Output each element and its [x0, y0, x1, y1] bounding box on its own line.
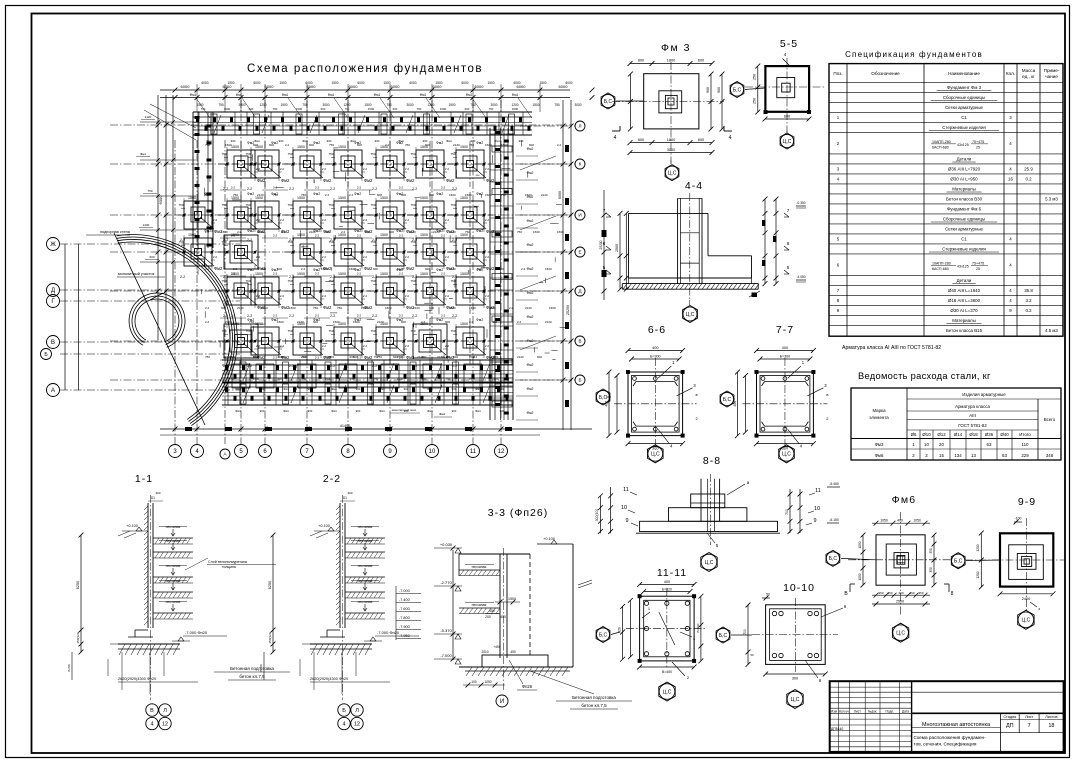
svg-text:600: 600 [784, 115, 790, 119]
svg-text:2-2: 2-2 [223, 364, 228, 368]
svg-text:Ц,С: Ц,С [791, 697, 800, 703]
bottom axis circles [169, 445, 182, 458]
svg-text:бетон кл.7,5: бетон кл.7,5 [581, 703, 607, 708]
svg-text:Фм2: Фм2 [396, 192, 403, 196]
svg-text:10: 10 [814, 506, 820, 512]
svg-text:ДП5140: ДП5140 [831, 727, 843, 731]
svg-text:400: 400 [652, 346, 658, 350]
svg-text:Ø36: Ø36 [985, 432, 994, 437]
svg-text:1500: 1500 [485, 143, 492, 147]
svg-text:В=400: В=400 [662, 670, 672, 674]
svg-text:450: 450 [510, 650, 516, 654]
svg-text:25200: 25200 [599, 240, 603, 249]
diagonal cut line [114, 233, 205, 425]
svg-text:2500: 2500 [615, 244, 619, 252]
svg-text:Фм2: Фм2 [313, 318, 320, 322]
svg-text:-7.900: -7.900 [399, 625, 410, 629]
svg-text:1500: 1500 [338, 272, 346, 276]
spec table rows [837, 85, 1059, 333]
svg-text:2-2: 2-2 [289, 187, 294, 191]
detail 5-5 [745, 86, 825, 88]
svg-text:25.9: 25.9 [1024, 167, 1033, 172]
svg-text:1500: 1500 [539, 81, 546, 85]
svg-text:2-2: 2-2 [357, 272, 362, 276]
marker circle CS of Fm3 [665, 166, 678, 179]
svg-text:2-2: 2-2 [289, 238, 294, 242]
svg-text:Марка: Марка [872, 408, 886, 413]
svg-text:600: 600 [537, 355, 542, 359]
svg-text:100: 100 [471, 680, 477, 684]
svg-text:2.2: 2.2 [521, 267, 526, 271]
svg-text:1500: 1500 [485, 193, 492, 197]
svg-text:750: 750 [287, 279, 292, 283]
svg-text:7: 7 [787, 208, 790, 213]
section 7-7 dims [757, 350, 814, 352]
svg-text:1500: 1500 [549, 306, 556, 310]
svg-text:2-2: 2-2 [412, 238, 417, 242]
svg-text:Фм2: Фм2 [396, 141, 403, 145]
svg-text:песчаная: песчаная [166, 600, 181, 604]
svg-text:2-2: 2-2 [330, 238, 335, 242]
svg-text:Ц,С: Ц,С [783, 139, 792, 145]
marker circle BS of 6-6 [596, 390, 609, 403]
svg-text:Сетки арматурные: Сетки арматурные [945, 105, 984, 110]
svg-text:2-2: 2-2 [315, 356, 320, 360]
svg-text:2-2: 2-2 [231, 272, 236, 276]
svg-text:2-2: 2-2 [273, 234, 278, 238]
svg-text:2-2: 2-2 [399, 356, 404, 360]
svg-text:750: 750 [245, 329, 250, 333]
svg-text:песчаная: песчаная [358, 525, 373, 529]
svg-text:2620(2920(4300 Фп20: 2620(2920(4300 Фп20 [310, 677, 348, 681]
svg-text:6250: 6250 [76, 581, 80, 589]
svg-text:1500: 1500 [380, 272, 388, 276]
footings embedded in lower strip [232, 364, 250, 388]
svg-text:Материалы: Материалы [952, 318, 976, 323]
svg-text:2-2: 2-2 [247, 364, 252, 368]
svg-text:350: 350 [929, 548, 933, 554]
section 1-1 axis circles [146, 704, 158, 716]
svg-text:2120: 2120 [237, 306, 244, 310]
svg-text:1200: 1200 [511, 103, 518, 107]
svg-text:600: 600 [425, 143, 430, 147]
svg-text:В: В [150, 708, 154, 714]
section 2-2 dims [272, 535, 274, 652]
svg-text:1500: 1500 [460, 322, 468, 326]
left edge dim stubs [140, 121, 196, 123]
svg-text:1050: 1050 [484, 680, 491, 684]
svg-text:1200: 1200 [143, 223, 150, 227]
svg-text:1500: 1500 [449, 193, 456, 197]
svg-text:Б,С: Б,С [733, 87, 742, 93]
svg-text:3-3 (Фп26): 3-3 (Фп26) [488, 507, 548, 519]
svg-text:6000: 6000 [265, 84, 275, 89]
marker circle BS of Fm3 [601, 94, 614, 107]
svg-text:35.8: 35.8 [1024, 288, 1033, 293]
svg-text:Б=300: Б=300 [650, 355, 660, 359]
svg-text:песчаная: песчаная [358, 539, 373, 543]
svg-text:Фундамент Фм 3: Фундамент Фм 3 [947, 85, 982, 90]
svg-text:1500: 1500 [255, 272, 263, 276]
svg-text:1500: 1500 [364, 103, 371, 107]
svg-text:2.2: 2.2 [237, 230, 242, 234]
svg-text:6000: 6000 [253, 81, 260, 85]
svg-text:2.2: 2.2 [233, 267, 238, 271]
svg-text:600: 600 [373, 267, 378, 271]
svg-text:600: 600 [425, 267, 430, 271]
svg-text:300(300: 300(300 [595, 509, 599, 522]
svg-text:Фм2: Фм2 [271, 318, 278, 322]
svg-text:Фм2: Фм2 [476, 268, 483, 272]
svg-text:Фм2: Фм2 [527, 267, 534, 271]
svg-text:Приме-: Приме- [1044, 68, 1060, 73]
svg-text:Стадия: Стадия [1003, 715, 1016, 719]
svg-text:346: 346 [1046, 453, 1054, 458]
svg-text:750: 750 [410, 152, 415, 156]
svg-text:1500: 1500 [489, 306, 496, 310]
svg-text:Фм2: Фм2 [247, 229, 254, 233]
svg-text:0.2: 0.2 [1025, 177, 1032, 182]
svg-text:6: 6 [787, 241, 790, 246]
svg-text:13: 13 [971, 453, 976, 458]
svg-text:Фм1: Фм1 [331, 387, 337, 391]
svg-text:600: 600 [422, 377, 427, 381]
svg-text:Спецификация фундаментов: Спецификация фундаментов [845, 50, 983, 59]
section 7-7 body [743, 403, 828, 405]
svg-text:Фм2: Фм2 [247, 141, 254, 145]
svg-text:900: 900 [356, 409, 361, 413]
svg-text:2-2: 2-2 [273, 356, 278, 360]
svg-text:Кол.уч: Кол.уч [839, 709, 849, 713]
svg-text:Б=300: Б=300 [780, 355, 790, 359]
svg-text:1500: 1500 [289, 306, 296, 310]
svg-text:Фм2: Фм2 [354, 318, 361, 322]
svg-text:400: 400 [897, 519, 903, 523]
svg-text:Фм2: Фм2 [476, 141, 483, 145]
svg-text:Фм2: Фм2 [439, 412, 445, 416]
svg-text:Б,С: Б,С [719, 633, 728, 639]
svg-text:Фм2: Фм2 [476, 318, 483, 322]
svg-text:350: 350 [918, 591, 923, 595]
svg-text:900: 900 [279, 139, 284, 143]
svg-text:Фм2: Фм2 [527, 291, 534, 295]
svg-text:2.2: 2.2 [485, 344, 490, 348]
svg-text:Фм1: Фм1 [235, 387, 241, 391]
svg-text:2.2: 2.2 [445, 218, 450, 222]
svg-text:2-2: 2-2 [399, 186, 404, 190]
svg-text:2120: 2120 [525, 306, 532, 310]
axis circle Ж left [47, 238, 60, 251]
svg-text:350: 350 [909, 591, 914, 595]
svg-text:в: в [826, 392, 828, 397]
svg-text:+450: +450 [493, 645, 500, 649]
svg-text:Ø14: Ø14 [954, 432, 963, 437]
svg-text:Ц,С: Ц,С [896, 631, 905, 637]
svg-text:700: 700 [743, 629, 747, 635]
svg-text:2-2: 2-2 [273, 314, 278, 318]
svg-text:Б1: Б1 [151, 496, 155, 500]
svg-text:2-2: 2-2 [412, 364, 417, 368]
footing plan x265 y291 [242, 290, 288, 292]
section 2-2 axis circles [338, 704, 350, 716]
svg-text:2-2: 2-2 [315, 314, 320, 318]
svg-text:Ø12: Ø12 [937, 432, 946, 437]
svg-text:Фм2: Фм2 [476, 192, 483, 196]
svg-text:600: 600 [377, 193, 382, 197]
svg-text:1050: 1050 [880, 519, 888, 523]
steel table grid [851, 388, 1061, 460]
top extension lines and small texts [196, 84, 198, 112]
svg-text:2-2: 2-2 [180, 238, 185, 242]
svg-text:Лист: Лист [1025, 715, 1034, 719]
svg-text:750: 750 [337, 306, 342, 310]
svg-text:Ц,С: Ц,С [686, 312, 695, 318]
svg-text:134: 134 [954, 453, 962, 458]
svg-text:750: 750 [450, 203, 455, 207]
marker circle BS of 10-10 [716, 628, 729, 641]
svg-text:1500: 1500 [469, 377, 476, 381]
svg-text:900: 900 [717, 87, 721, 93]
svg-text:1500: 1500 [361, 306, 368, 310]
marker circle CS of 11-11 [659, 684, 675, 700]
axis circle В left [47, 336, 60, 349]
svg-text:2120: 2120 [541, 193, 548, 197]
svg-text:2-2: 2-2 [180, 275, 185, 279]
svg-text:толщина: толщина [222, 565, 236, 569]
svg-text:2-2: 2-2 [452, 187, 457, 191]
svg-text:5.3 м3: 5.3 м3 [1045, 197, 1058, 202]
svg-text:4: 4 [342, 721, 345, 727]
footing plan x241 y291 [218, 290, 264, 292]
section 6-6 body [614, 403, 697, 405]
svg-text:750: 750 [417, 107, 422, 111]
svg-text:Кол.: Кол. [1006, 71, 1015, 76]
svg-text:песчаная: песчаная [166, 579, 181, 583]
footing plan x430 y252 [407, 251, 453, 253]
svg-text:2120: 2120 [449, 267, 456, 271]
svg-text:2-2: 2-2 [231, 186, 236, 190]
svg-text:750: 750 [205, 355, 210, 359]
svg-text:600: 600 [253, 355, 258, 359]
footing plan x470 y341 [447, 340, 493, 342]
svg-text:4: 4 [729, 135, 732, 141]
svg-text:ГОСТ 5781-82: ГОСТ 5781-82 [958, 423, 987, 428]
svg-text:песчаная: песчаная [358, 579, 373, 583]
svg-text:Фундамент Фм 6: Фундамент Фм 6 [947, 207, 982, 212]
svg-text:6000: 6000 [475, 84, 485, 89]
svg-text:1500: 1500 [227, 81, 234, 85]
svg-text:3000: 3000 [238, 103, 245, 107]
detail 9-9 [965, 559, 1065, 561]
svg-text:12: 12 [162, 721, 168, 727]
svg-text:1800: 1800 [667, 138, 675, 142]
svg-text:-6.150: -6.150 [829, 518, 839, 522]
svg-text:75+475: 75+475 [972, 140, 984, 144]
svg-text:1500: 1500 [440, 107, 447, 111]
svg-text:Фм1: Фм1 [331, 409, 337, 413]
svg-text:Схема расположения фундаментов: Схема расположения фундаментов [247, 63, 483, 75]
svg-text:2.2: 2.2 [280, 167, 285, 171]
svg-text:2-2: 2-2 [441, 234, 446, 238]
footing plan x430 y164 [407, 163, 453, 165]
svg-text:750: 750 [302, 103, 308, 107]
svg-text:750: 750 [302, 377, 307, 381]
svg-text:2.2: 2.2 [363, 255, 368, 259]
svg-text:1500: 1500 [261, 306, 268, 310]
footing plan x348 y341 [325, 340, 371, 342]
svg-text:6250: 6250 [268, 581, 272, 589]
svg-text:900: 900 [500, 387, 505, 391]
svg-text:Ц,С: Ц,С [668, 170, 677, 176]
svg-text:Фм2: Фм2 [257, 178, 266, 183]
svg-text:750: 750 [345, 107, 350, 111]
svg-text:2620(2920(4300 Фп20: 2620(2920(4300 Фп20 [118, 677, 156, 681]
svg-text:110: 110 [1022, 442, 1030, 447]
svg-text:2120: 2120 [449, 230, 456, 234]
svg-text:250: 250 [753, 98, 757, 104]
svg-text:600: 600 [329, 355, 334, 359]
svg-text:6000: 6000 [357, 81, 364, 85]
svg-text:1500: 1500 [435, 81, 442, 85]
svg-text:Л: Л [163, 708, 167, 714]
svg-text:750: 750 [370, 152, 375, 156]
footing plan x241 y341 [218, 340, 264, 342]
marker circle CS of 5-5 [780, 134, 793, 147]
axis circle Б2 left [41, 349, 52, 360]
svg-text:в: в [696, 392, 698, 397]
svg-text:2120: 2120 [413, 306, 420, 310]
svg-text:Фм1: Фм1 [190, 93, 197, 97]
footing plan x348 y215 [325, 214, 371, 216]
svg-text:бетон кл.7,5: бетон кл.7,5 [239, 674, 265, 679]
marker circle BS of 11-11 [596, 628, 609, 641]
svg-text:2.2: 2.2 [281, 230, 286, 234]
svg-text:2-2: 2-2 [357, 234, 362, 238]
svg-text:750: 750 [465, 230, 470, 234]
svg-text:600: 600 [325, 230, 330, 234]
svg-text:2.2: 2.2 [280, 344, 285, 348]
svg-text:Обозначение: Обозначение [871, 71, 900, 76]
svg-text:-7.950: -7.950 [399, 634, 410, 638]
footing plan x307 y252 [284, 251, 330, 253]
svg-text:Стержневые изделия: Стержневые изделия [942, 247, 986, 252]
svg-text:2-2: 2-2 [441, 314, 446, 318]
svg-text:1500: 1500 [420, 196, 428, 200]
svg-text:Б,С: Б,С [599, 395, 608, 401]
svg-text:Фм2: Фм2 [271, 268, 278, 272]
svg-text:Всего: Всего [1044, 417, 1056, 422]
svg-text:Фм 3: Фм 3 [661, 42, 691, 54]
left wall footing strip segment [192, 112, 194, 248]
svg-text:1500: 1500 [321, 267, 328, 271]
svg-text:Ц,С: Ц,С [782, 452, 791, 458]
svg-text:Фм2: Фм2 [436, 318, 443, 322]
footing plan x241 y164 [218, 163, 264, 165]
svg-text:А: А [51, 388, 55, 394]
svg-text:2.2: 2.2 [301, 267, 306, 271]
footing plan x307 y215 [284, 214, 330, 216]
title block grid [830, 686, 912, 688]
section 11-11 dims [640, 584, 695, 586]
svg-text:2.2: 2.2 [322, 255, 327, 259]
svg-text:Ц,С: Ц,С [651, 452, 660, 458]
svg-text:Лист: Лист [854, 709, 861, 713]
svg-text:С1: С1 [961, 115, 967, 120]
svg-text:750: 750 [221, 152, 226, 156]
svg-text:1050: 1050 [858, 573, 862, 580]
svg-text:0.2: 0.2 [1025, 308, 1032, 313]
svg-text:63: 63 [1002, 453, 1007, 458]
svg-text:Фм2: Фм2 [406, 266, 415, 271]
svg-text:Слой пенополиуретана: Слой пенополиуретана [208, 560, 247, 564]
svg-text:1500: 1500 [188, 196, 196, 200]
svg-text:1500: 1500 [460, 145, 468, 149]
svg-text:1500: 1500 [188, 233, 196, 237]
svg-text:2-2: 2-2 [315, 234, 320, 238]
svg-text:1500: 1500 [460, 272, 468, 276]
svg-text:63: 63 [987, 442, 992, 447]
svg-text:Б1: Б1 [343, 496, 347, 500]
svg-text:И: И [578, 213, 581, 218]
svg-text:2-2: 2-2 [441, 272, 446, 276]
svg-text:-5.370: -5.370 [440, 628, 452, 633]
svg-text:2.2: 2.2 [473, 355, 478, 359]
svg-text:6000: 6000 [461, 81, 468, 85]
svg-text:900: 900 [519, 139, 524, 143]
svg-text:Фм2: Фм2 [313, 192, 320, 196]
svg-text:Б=50: Б=50 [67, 664, 71, 671]
svg-text:1500: 1500 [368, 107, 375, 111]
svg-text:Сборочные единицы: Сборочные единицы [943, 95, 985, 100]
svg-text:Фм1: Фм1 [235, 409, 241, 413]
svg-text:6000: 6000 [513, 81, 520, 85]
svg-text:1200: 1200 [976, 544, 980, 551]
svg-text:Наименование: Наименование [948, 71, 980, 76]
svg-text:2-2: 2-2 [289, 364, 294, 368]
footing plan x430 y215 [407, 214, 453, 216]
svg-text:Листов: Листов [1045, 715, 1057, 719]
svg-text:750: 750 [370, 279, 375, 283]
svg-text:600: 600 [698, 59, 704, 63]
svg-text:2120: 2120 [145, 115, 152, 119]
svg-text:Фм1: Фм1 [427, 409, 433, 413]
svg-text:600: 600 [350, 377, 355, 381]
svg-text:2.2: 2.2 [445, 255, 450, 259]
steel table texts [869, 392, 1056, 458]
top dimension lines [160, 89, 570, 91]
svg-text:1500: 1500 [231, 322, 239, 326]
svg-text:Фм2: Фм2 [476, 229, 483, 233]
footing plan x241 y215 [218, 214, 264, 216]
svg-text:Фм2: Фм2 [406, 178, 415, 183]
svg-text:-7.000: -7.000 [440, 653, 452, 658]
svg-text:2-2: 2-2 [452, 275, 457, 279]
svg-text:2120: 2120 [545, 320, 552, 324]
svg-text:Ø30 АI L=950: Ø30 АI L=950 [950, 177, 978, 182]
svg-text:750: 750 [450, 329, 455, 333]
svg-text:Фм2: Фм2 [204, 229, 211, 233]
svg-text:-7.800: -7.800 [399, 616, 410, 620]
svg-text:Фм2: Фм2 [323, 305, 332, 310]
svg-text:16: 16 [1008, 177, 1013, 182]
svg-text:2-2: 2-2 [452, 364, 457, 368]
svg-text:41400: 41400 [340, 424, 351, 428]
footing plan x390 y164 [367, 163, 413, 165]
svg-text:2-2: 2-2 [441, 186, 446, 190]
svg-text:2120: 2120 [301, 355, 308, 359]
svg-text:Фм2: Фм2 [396, 268, 403, 272]
svg-text:А: А [223, 452, 226, 457]
